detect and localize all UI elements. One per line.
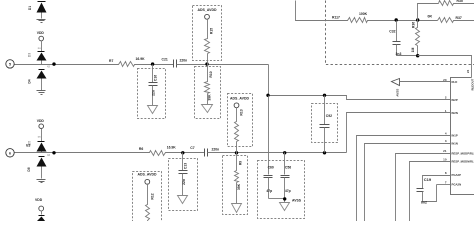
svg-text:C16: C16 bbox=[153, 75, 157, 81]
junction R36/C32 bottom bbox=[416, 54, 419, 57]
capacitor C19 bbox=[417, 185, 437, 202]
DNP box R9 bbox=[223, 156, 248, 215]
resistor R12 bbox=[146, 184, 150, 222]
ground (ch1) bbox=[37, 91, 46, 95]
resistor R13 bbox=[235, 108, 239, 153]
diode D4 (ch1 to gnd) bbox=[37, 70, 47, 91]
junction C32 tap bbox=[395, 18, 398, 21]
svg-text:10: 10 bbox=[443, 157, 447, 161]
svg-text:1M: 1M bbox=[411, 47, 415, 52]
wire pin 20 bbox=[400, 81, 451, 83]
junction R36 tap bbox=[416, 18, 419, 21]
svg-text:AVSS: AVSS bbox=[292, 198, 302, 202]
capacitor C92 bbox=[320, 96, 330, 153]
svg-text:21: 21 bbox=[443, 149, 447, 153]
svg-text:22n: 22n bbox=[152, 90, 156, 96]
power VDD (channel 3 partial) bbox=[35, 198, 44, 215]
net flag AVSS (pin 20) bbox=[392, 79, 400, 86]
resistor R35 (top, clipped) bbox=[439, 1, 474, 6]
junction C92 tap bbox=[323, 94, 326, 97]
svg-text:RESP_MODP/RLDIN: RESP_MODP/RLDIN bbox=[452, 151, 474, 155]
op-amp U1 IC body edge bbox=[451, 78, 474, 195]
svg-text:R10: R10 bbox=[209, 71, 213, 77]
svg-text:47p: 47p bbox=[266, 189, 272, 193]
svg-text:E3: E3 bbox=[26, 143, 30, 147]
svg-text:R6: R6 bbox=[139, 147, 143, 151]
svg-text:22n: 22n bbox=[182, 179, 186, 185]
junction C60 tap bbox=[266, 94, 269, 97]
connector pin 5 (ch1 input) bbox=[6, 60, 14, 68]
svg-text:R7: R7 bbox=[109, 59, 113, 63]
svg-text:PGA2N: PGA2N bbox=[452, 183, 462, 187]
power VDD (channel 1) bbox=[37, 31, 45, 52]
diode D7 (ch3 partial) bbox=[37, 216, 46, 222]
svg-text:R13: R13 bbox=[239, 109, 243, 115]
svg-text:D1: D1 bbox=[28, 6, 32, 10]
wire ch1 mid row bbox=[269, 96, 451, 100]
ground AVSS (R10) bbox=[202, 105, 213, 113]
DNP box R15 bbox=[193, 6, 222, 61]
svg-text:IN1P: IN1P bbox=[452, 134, 458, 138]
wire pin 4 bbox=[357, 136, 451, 222]
svg-text:0R: 0R bbox=[428, 15, 433, 19]
ground AVSS (R9) bbox=[232, 204, 242, 213]
svg-text:16.9K: 16.9K bbox=[136, 57, 146, 61]
svg-text:39K: 39K bbox=[208, 94, 212, 101]
svg-text:D4: D4 bbox=[27, 79, 31, 83]
diode D6 (ch2 to gnd) bbox=[37, 157, 47, 179]
svg-text:24: 24 bbox=[466, 70, 470, 74]
junction ch2/C56 bbox=[283, 151, 286, 154]
svg-text:C13: C13 bbox=[184, 163, 188, 169]
ground AVSS (C13) bbox=[178, 196, 188, 204]
svg-text:ADS_AVDD: ADS_AVDD bbox=[198, 8, 217, 12]
DNP box C60 C56 bbox=[258, 161, 305, 219]
svg-text:RLDOUT: RLDOUT bbox=[470, 78, 474, 90]
wire bbox=[370, 20, 438, 22]
svg-text:VDD: VDD bbox=[37, 119, 45, 123]
resistor R36 bbox=[416, 21, 420, 56]
capacitor C21 bbox=[174, 60, 177, 68]
junction ch2 diode node bbox=[52, 151, 55, 154]
junction ch2/C13 bbox=[181, 151, 184, 154]
wire ch1 input bbox=[15, 64, 118, 66]
DNP box R10 bbox=[195, 67, 221, 119]
ground AVSS (C16) bbox=[148, 106, 158, 114]
svg-text:IN2P: IN2P bbox=[452, 98, 458, 102]
wire RLD feed bbox=[296, 1, 347, 21]
big DNP region box bbox=[326, 1, 474, 65]
svg-text:C92: C92 bbox=[326, 114, 332, 118]
DNP box C16 bbox=[138, 69, 166, 119]
svg-text:RLD: RLD bbox=[452, 80, 458, 84]
svg-text:R117: R117 bbox=[332, 16, 340, 20]
svg-text:ADS_AVDD: ADS_AVDD bbox=[138, 173, 157, 177]
power ADS_AVDD (R15) bbox=[198, 8, 217, 19]
wire ch2 input bbox=[15, 152, 148, 154]
wire pin 7 bbox=[437, 184, 451, 186]
svg-text:C56: C56 bbox=[285, 165, 291, 169]
svg-text:PGA2P: PGA2P bbox=[452, 173, 462, 177]
resistor R7 bbox=[118, 62, 137, 67]
ground (ch2) bbox=[37, 180, 46, 183]
svg-text:C21: C21 bbox=[162, 58, 168, 62]
svg-text:C32: C32 bbox=[389, 30, 395, 34]
svg-text:5: 5 bbox=[9, 63, 11, 67]
junction ch2/R13/R9 bbox=[235, 151, 238, 154]
svg-text:C60: C60 bbox=[268, 165, 274, 169]
svg-text:IN1N: IN1N bbox=[452, 141, 458, 145]
svg-text:R37: R37 bbox=[456, 16, 462, 20]
power VDD (channel 2) bbox=[37, 119, 45, 142]
junction ch2/C92 bbox=[323, 151, 326, 154]
junction ch1/R15/R10 bbox=[205, 62, 208, 65]
svg-text:6n2: 6n2 bbox=[421, 201, 427, 205]
svg-text:VDD: VDD bbox=[37, 31, 45, 35]
wire ch1 drop to mid row bbox=[268, 65, 270, 96]
DNP box C13 bbox=[169, 159, 198, 211]
capacitor C32 bbox=[393, 21, 418, 56]
wire pin 21 bbox=[396, 154, 451, 222]
svg-text:RESP_MODN/RLDINV: RESP_MODN/RLDINV bbox=[452, 160, 474, 164]
power ADS_AVDD (R12) bbox=[138, 173, 157, 185]
svg-text:100K: 100K bbox=[359, 12, 368, 16]
svg-text:R12: R12 bbox=[150, 193, 154, 199]
svg-text:D6: D6 bbox=[27, 167, 31, 171]
svg-text:47p: 47p bbox=[285, 189, 291, 193]
svg-text:C19: C19 bbox=[424, 177, 432, 182]
svg-text:220n: 220n bbox=[212, 147, 220, 151]
wire pin 10 bbox=[410, 162, 451, 222]
svg-text:IN2N: IN2N bbox=[452, 111, 458, 115]
svg-text:VDD: VDD bbox=[35, 198, 43, 202]
svg-text:6: 6 bbox=[9, 151, 11, 155]
resistor R117 bbox=[347, 18, 370, 23]
wire pin 1 riser bbox=[347, 113, 451, 153]
wire pin 3 bbox=[365, 144, 451, 222]
svg-text:ADS_AVDD: ADS_AVDD bbox=[230, 96, 249, 100]
diode D5 (ch2 to VDD) bbox=[37, 136, 47, 152]
DNP box C92 bbox=[312, 104, 338, 143]
svg-text:R35: R35 bbox=[457, 0, 463, 3]
svg-text:3n3: 3n3 bbox=[396, 52, 402, 56]
wire bbox=[167, 152, 205, 154]
capacitor C13 bbox=[179, 153, 188, 196]
svg-text:AVSS: AVSS bbox=[395, 89, 399, 97]
resistor R9 bbox=[235, 153, 239, 204]
wire upper branch bbox=[418, 4, 439, 21]
svg-text:C7: C7 bbox=[190, 146, 194, 150]
DNP box R12 bbox=[133, 172, 162, 224]
resistor R15 bbox=[205, 19, 210, 65]
junction ch1/C16 bbox=[151, 62, 154, 65]
resistor R10 bbox=[205, 65, 210, 105]
svg-text:R15: R15 bbox=[210, 28, 214, 34]
ground AVSS (C60 C56) bbox=[280, 203, 290, 211]
capacitor C7 bbox=[205, 149, 208, 157]
capacitor C60 bbox=[264, 96, 273, 199]
svg-text:16.9K: 16.9K bbox=[167, 145, 177, 149]
resistor R37 0R bbox=[438, 18, 474, 23]
wire bbox=[137, 64, 174, 66]
diode D1 (top partial channel) bbox=[37, 2, 47, 19]
svg-text:220n: 220n bbox=[180, 59, 188, 63]
wire pin 8 bbox=[423, 176, 451, 189]
junction ch1 diode node bbox=[52, 62, 55, 65]
diode D3 (ch1 to VDD) bbox=[37, 48, 47, 65]
svg-text:D3: D3 bbox=[28, 53, 32, 57]
wire C60/C56 common bbox=[269, 198, 285, 200]
connector pin 6 (ch2 input E3) bbox=[6, 149, 14, 157]
wire to RLDOUT pin bbox=[418, 56, 472, 78]
resistor R6 bbox=[148, 151, 167, 156]
wire ch2 to riser bbox=[208, 152, 347, 154]
junction C56 gnd bbox=[283, 197, 286, 200]
wire bbox=[177, 64, 269, 66]
capacitor C16 bbox=[149, 65, 158, 106]
svg-text:R36: R36 bbox=[412, 22, 416, 28]
power ADS_AVDD (R13) bbox=[230, 96, 249, 107]
svg-text:20: 20 bbox=[443, 78, 447, 82]
svg-text:R9: R9 bbox=[238, 161, 242, 165]
ground (top channel) bbox=[37, 20, 46, 23]
svg-text:39K: 39K bbox=[237, 183, 241, 190]
capacitor C56 bbox=[281, 153, 290, 203]
DNP box R13 bbox=[228, 94, 253, 147]
